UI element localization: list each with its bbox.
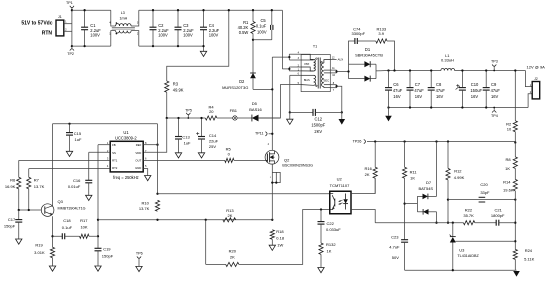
wire FB-CS line (98, 219, 272, 221)
svg-text:16.9K: 16.9K (5, 184, 16, 189)
test point TP4 (493, 108, 495, 110)
svg-text:UCC3809-2: UCC3809-2 (115, 136, 137, 141)
svg-text:13.7K: 13.7K (34, 184, 45, 189)
svg-text:R24: R24 (525, 248, 533, 253)
ground secondary return (339, 119, 346, 125)
svg-text:MMBT3904LT1G: MMBT3904LT1G (58, 207, 86, 211)
resistor R11 (404, 142, 406, 168)
svg-text:U3: U3 (459, 247, 465, 252)
capacitor C14 (201, 118, 203, 137)
wire FB1 to D5 (237, 117, 252, 119)
svg-text:R20: R20 (229, 249, 237, 254)
svg-text:U2: U2 (337, 176, 343, 181)
resistor R12 (447, 142, 449, 169)
svg-text:RTN: RTN (42, 31, 53, 37)
svg-text:R14: R14 (503, 180, 511, 185)
svg-text:1500pF: 1500pF (311, 123, 325, 128)
wire GND pin to ground (143, 169, 148, 176)
capacitor C17 (18, 210, 20, 220)
T1 left pins 4 3 (289, 53, 301, 55)
capacitor C20 (479, 196, 486, 198)
svg-text:1800pF: 1800pF (491, 213, 505, 218)
svg-text:R12: R12 (454, 169, 462, 174)
resistor R7 (27, 177, 31, 189)
wire REF pin to REF column (143, 144, 157, 146)
ground R132 (318, 268, 324, 273)
svg-text:0.033uF: 0.033uF (326, 227, 341, 232)
wire analog ground rail (405, 269, 516, 271)
svg-text:BAT54S: BAT54S (418, 186, 433, 191)
svg-text:SS: SS (112, 151, 116, 155)
svg-text:1W: 1W (277, 243, 283, 248)
ground input (200, 51, 206, 56)
wire input vertical (71, 9, 73, 46)
U2 LED (345, 194, 347, 200)
svg-text:R6: R6 (10, 178, 16, 183)
svg-text:13.7K: 13.7K (139, 206, 150, 211)
capacitor C12 (290, 111, 313, 113)
svg-text:5.11K: 5.11K (524, 257, 534, 262)
wire output - rail (389, 107, 529, 109)
capacitor C18 (53, 235, 63, 237)
svg-text:49.9K: 49.9K (173, 88, 184, 93)
svg-text:GND: GND (135, 166, 141, 170)
resistor R4 (205, 116, 217, 120)
svg-text:100V: 100V (257, 29, 267, 34)
svg-text:33pF: 33pF (480, 190, 490, 195)
svg-text:100V: 100V (90, 33, 100, 38)
capacitor C16 (85, 179, 92, 181)
wire primary bottom to Q2 drain (271, 57, 273, 150)
svg-text:C19: C19 (103, 247, 111, 252)
T1 core (317, 58, 319, 89)
U2 phototransistor (330, 193, 333, 195)
svg-text:50V: 50V (392, 255, 399, 260)
svg-text:L3: L3 (121, 11, 125, 15)
T1 secondary pins 8 7 (330, 84, 336, 86)
ground C13 (175, 153, 181, 158)
resistor R10 (155, 200, 159, 211)
svg-text:freq = 250kHz: freq = 250kHz (113, 175, 139, 180)
wire U2 cathode to compensation (351, 210, 375, 223)
wire collector column (52, 124, 54, 206)
svg-text:16V: 16V (415, 94, 423, 99)
svg-text:C7: C7 (415, 82, 421, 87)
svg-text:BSC090N20NS3G: BSC090N20NS3G (282, 164, 313, 168)
ferrite bead FB1 (233, 116, 237, 120)
capacitor C2 (152, 10, 154, 27)
T1 bias winding (314, 75, 316, 85)
svg-text:REF: REF (136, 143, 142, 147)
snubber capacitor C74 (349, 41, 355, 64)
svg-text:100V: 100V (183, 33, 193, 38)
svg-text:100V: 100V (158, 33, 168, 38)
capacitor C1 (84, 10, 86, 27)
svg-text:47uF: 47uF (491, 88, 501, 93)
svg-text:R132: R132 (326, 242, 336, 247)
svg-text:TP6: TP6 (136, 252, 143, 256)
wire RT1 pin to R6 (19, 159, 110, 161)
capacitor C5 (271, 10, 273, 25)
svg-text:TP5: TP5 (185, 108, 192, 112)
shunt regulator U3 TL431 (452, 223, 454, 237)
resistor R5 (225, 158, 234, 162)
svg-text:C13: C13 (182, 134, 190, 139)
capacitor C7 (409, 71, 411, 88)
svg-text:TP11: TP11 (255, 132, 264, 136)
resistor R8 (514, 143, 516, 157)
svg-text:FB1: FB1 (230, 108, 238, 113)
capacitor C21 (475, 222, 496, 224)
svg-text:C17: C17 (8, 217, 16, 222)
svg-text:D7: D7 (426, 180, 432, 185)
svg-text:3.01K: 3.01K (34, 250, 45, 255)
wire R5 to Q2 gate (234, 159, 265, 161)
svg-text:16V: 16V (393, 94, 401, 99)
wire REF to opto collector (158, 193, 330, 195)
svg-text:OUT: OUT (135, 159, 141, 163)
wire RT2 pin to R7 (29, 168, 110, 170)
svg-text:SBR30A45CTB: SBR30A45CTB (355, 52, 383, 57)
wire bottom RTN rail (72, 45, 111, 47)
svg-text:1K: 1K (327, 249, 332, 254)
T1 bias pin 5 to D5 rail (289, 84, 301, 86)
wire SS pin (89, 151, 110, 153)
wire bottom rail after L3 (139, 45, 204, 47)
svg-text:U1: U1 (123, 130, 129, 135)
svg-text:VDD: VDD (135, 151, 141, 155)
svg-text:C8: C8 (436, 82, 442, 87)
svg-text:C15: C15 (74, 131, 82, 136)
svg-text:2K: 2K (230, 254, 235, 259)
svg-text:C12: C12 (315, 116, 323, 121)
svg-text:C18: C18 (63, 218, 71, 223)
svg-text:2K: 2K (365, 172, 370, 177)
svg-text:4.99K: 4.99K (454, 175, 465, 180)
ground C14 (198, 153, 204, 158)
svg-text:R7: R7 (34, 178, 40, 183)
ground output (388, 108, 390, 116)
wire primary top feed (281, 10, 283, 69)
capacitor C8 (430, 71, 432, 88)
T1 bias pin 6 to ground (290, 74, 301, 76)
svg-text:2K: 2K (228, 213, 233, 218)
wire VDD rail (167, 117, 206, 119)
wire R20 to opto emitter (239, 210, 330, 265)
svg-text:C16: C16 (73, 178, 81, 183)
resistor R132 (319, 243, 323, 254)
ground bias (287, 119, 293, 124)
svg-text:R11: R11 (410, 169, 418, 174)
svg-text:C22: C22 (327, 221, 335, 226)
svg-text:MURS120T3G: MURS120T3G (222, 85, 248, 90)
svg-text:J1: J1 (58, 15, 62, 19)
svg-text:25V: 25V (209, 144, 216, 149)
wire top input rail (72, 9, 111, 11)
svg-text:C10: C10 (471, 82, 479, 87)
ground C15 (66, 151, 72, 156)
svg-text:47uF: 47uF (436, 88, 446, 93)
svg-text:BAS16: BAS16 (249, 107, 262, 112)
snubber resistor R133 (357, 40, 376, 42)
wire U2 anode to R16 (351, 178, 375, 193)
svg-text:0.18: 0.18 (276, 236, 285, 241)
svg-text:1uF: 1uF (75, 137, 82, 142)
wire output + rail (389, 70, 441, 72)
wire 12V sense line (375, 141, 515, 143)
svg-text:FB: FB (112, 143, 116, 147)
svg-text:3300pF: 3300pF (352, 31, 366, 36)
svg-text:19.6K: 19.6K (503, 188, 514, 193)
resistor R17 (80, 234, 90, 238)
Q2 source pin bracket (272, 172, 280, 182)
svg-text:TP1: TP1 (66, 1, 73, 5)
svg-text:J2: J2 (534, 77, 538, 81)
svg-text:3.9: 3.9 (378, 31, 384, 36)
resistor R1 (252, 10, 254, 21)
T1 left pins 2 1 (289, 66, 301, 68)
svg-text:C20: C20 (480, 182, 488, 187)
wire OUT pin to gate (143, 159, 225, 161)
diode D2 (250, 73, 256, 78)
svg-text:Q3: Q3 (58, 199, 64, 204)
ground analog (515, 269, 516, 271)
svg-text:TL431AIDBZ: TL431AIDBZ (457, 254, 479, 258)
resistor R20 (226, 262, 239, 266)
transistor Q2 MOSFET (265, 150, 279, 164)
op-amp U1 UCC3809-2 box (110, 141, 143, 172)
svg-text:R19: R19 (35, 243, 43, 248)
wire TL431 ref line (455, 240, 515, 242)
wire feed to R3 column (167, 10, 229, 81)
capacitor C3 (177, 10, 179, 27)
capacitor C6 (388, 71, 390, 88)
svg-text:47uF: 47uF (393, 88, 403, 93)
svg-text:C21: C21 (495, 207, 503, 212)
svg-text:0.5W: 0.5W (239, 30, 249, 35)
wire top rail after L3 (139, 9, 283, 11)
test point TP2 (70, 47, 74, 50)
svg-text:12V @ 9A: 12V @ 9A (527, 64, 546, 69)
svg-text:R18: R18 (276, 229, 284, 234)
optocoupler U2 TCMT1107 box (330, 191, 351, 214)
wire REF column (157, 124, 159, 194)
transformer T1 box (301, 55, 330, 92)
capacitor C15 (69, 124, 71, 133)
wire C20 line (448, 199, 515, 201)
svg-text:RT2: RT2 (112, 166, 118, 170)
svg-text:47uF: 47uF (414, 88, 424, 93)
svg-text:R8: R8 (505, 157, 511, 162)
svg-text:TP3: TP3 (491, 60, 498, 64)
svg-text:R3: R3 (173, 81, 179, 86)
resistor R3 (165, 81, 169, 92)
capacitor C13 (178, 118, 180, 137)
svg-text:TP26: TP26 (353, 140, 362, 144)
svg-text:0.33uH: 0.33uH (441, 58, 454, 63)
capacitor C15 line (53, 123, 158, 125)
svg-text:TP2: TP2 (67, 52, 74, 56)
resistor R14 (514, 168, 516, 179)
T1 secondary winding (322, 63, 324, 87)
svg-text:C23: C23 (391, 235, 399, 240)
ground C16 (86, 195, 92, 200)
svg-text:2KV: 2KV (314, 129, 322, 134)
resistor R19 (50, 247, 54, 257)
resistor R16 (373, 167, 377, 178)
resistor R24 (513, 249, 517, 259)
svg-text:R22: R22 (465, 207, 473, 212)
svg-text:1K: 1K (505, 166, 510, 171)
capacitor C23 (401, 239, 408, 241)
svg-text:C5: C5 (260, 18, 266, 23)
inductor L1 (441, 68, 455, 70)
capacitor C22 (320, 210, 322, 222)
resistor R22 (463, 221, 474, 225)
svg-text:D5: D5 (252, 101, 258, 106)
wire Q2 source (271, 164, 273, 220)
T1 secondary pins 11 10 (330, 69, 336, 71)
svg-text:1uF: 1uF (184, 141, 191, 146)
svg-text:C14: C14 (209, 133, 217, 138)
ground C17 (16, 239, 22, 244)
svg-text:100V: 100V (209, 33, 219, 38)
svg-text:20: 20 (209, 109, 214, 114)
svg-text:TCMT1107: TCMT1107 (330, 183, 350, 188)
capacitor C19 (95, 247, 102, 249)
svg-text:Q2: Q2 (284, 157, 290, 162)
svg-text:4.7uF: 4.7uF (389, 245, 400, 250)
svg-text:16V: 16V (436, 94, 444, 99)
svg-text:150uF: 150uF (470, 88, 482, 93)
T1 pin 12 AUX stub (330, 59, 336, 61)
ground U1 (145, 176, 151, 181)
svg-text:D2: D2 (239, 79, 245, 84)
svg-text:RT1: RT1 (112, 159, 118, 163)
transistor Q3 (41, 204, 54, 217)
svg-text:TP4: TP4 (491, 114, 498, 118)
svg-text:BIAS: BIAS (304, 78, 310, 82)
capacitor C10 (461, 71, 463, 88)
resistor R2 (514, 71, 516, 121)
svg-text:16V: 16V (471, 94, 479, 99)
svg-text:AUX: AUX (338, 58, 344, 62)
capacitor C9 (485, 71, 487, 88)
svg-text:C9: C9 (491, 82, 497, 87)
svg-text:PRI: PRI (304, 62, 309, 66)
svg-text:10K: 10K (80, 225, 87, 230)
svg-text:R16: R16 (365, 166, 373, 171)
svg-text:T1: T1 (313, 44, 317, 48)
svg-text:35.7K: 35.7K (463, 213, 474, 218)
wire compensation line (375, 222, 463, 224)
capacitor C4 (203, 10, 205, 27)
svg-text:0.1uF: 0.1uF (62, 225, 73, 230)
svg-text:22uF: 22uF (209, 139, 219, 144)
ground R18 (269, 245, 275, 250)
ground C19 (95, 266, 101, 271)
ground R19 (49, 266, 55, 271)
svg-text:R17: R17 (80, 218, 88, 223)
resistor R18 (270, 230, 274, 240)
wire FB pin (98, 144, 110, 146)
resistor R13 (223, 218, 236, 222)
svg-text:1K: 1K (410, 176, 415, 181)
wire R4 to FB1 (217, 117, 233, 119)
svg-text:0.1uF: 0.1uF (256, 24, 267, 29)
svg-text:SEC: SEC (323, 79, 329, 83)
resistor R6 (17, 177, 21, 189)
svg-text:150pF: 150pF (4, 224, 16, 229)
wire Q3 base (19, 209, 42, 211)
wire R20 branch (205, 220, 207, 265)
connector J1 (56, 20, 64, 36)
svg-text:16V: 16V (491, 94, 499, 99)
wire Q3 emitter (52, 216, 54, 247)
ground TP6 (136, 266, 142, 271)
T1 primary winding (314, 59, 316, 71)
svg-text:10: 10 (507, 126, 512, 131)
svg-text:R10: R10 (142, 200, 150, 205)
svg-text:150pF: 150pF (102, 254, 114, 259)
svg-text:0.01uF: 0.01uF (68, 184, 81, 189)
diode D5 (252, 115, 259, 122)
svg-text:C6: C6 (393, 82, 399, 87)
wire VDD pin feed (143, 118, 167, 152)
svg-text:1mH: 1mH (120, 16, 128, 20)
svg-text:51V to 57Vdc: 51V to 57Vdc (21, 21, 52, 27)
